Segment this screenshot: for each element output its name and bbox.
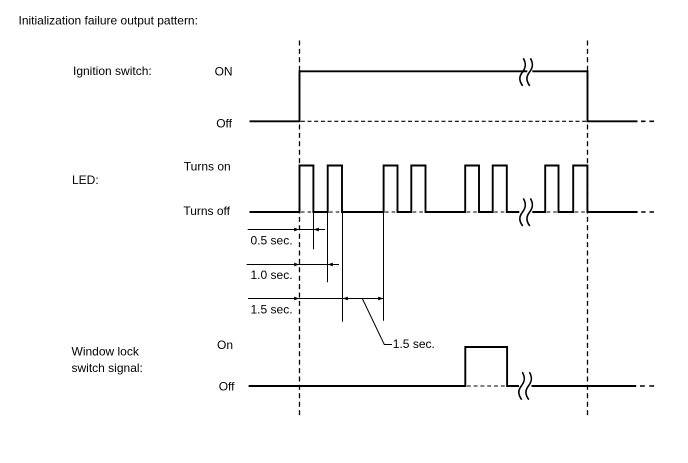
svg-text:1.5 sec.: 1.5 sec. — [251, 303, 293, 317]
row 3 left-pointing arrowhead at x=342 — [343, 297, 348, 301]
row 3 right-pointing arrowhead at x=299.5 — [294, 297, 299, 301]
svg-text:1.5 sec.: 1.5 sec. — [393, 337, 435, 351]
svg-text:Turns on: Turns on — [184, 160, 231, 174]
LED off-level trailing dashes — [641, 211, 654, 213]
svg-text:On: On — [217, 338, 233, 352]
break squiggle on LED baseline — [520, 198, 526, 226]
svg-text:ON: ON — [215, 64, 233, 78]
svg-text:1.0 sec.: 1.0 sec. — [251, 268, 293, 282]
LED dashed baseline under pulse 6 — [494, 211, 506, 213]
svg-text:Off: Off — [216, 117, 232, 131]
svg-text:Window lock: Window lock — [72, 345, 140, 359]
window dashed baseline under pulse — [467, 385, 506, 387]
ignition switch waveform (off-high-off) — [250, 71, 638, 121]
LED dashed baseline under pulse 8 — [575, 211, 587, 213]
extension line A from pulse1 falling edge (x=313.4) — [313, 212, 315, 249]
dimension row 1 line (0.5 sec) — [248, 229, 325, 231]
dashed vertical reference line right (x=587.5) — [587, 41, 589, 417]
dimension row 2 line (1.0 sec) — [247, 264, 339, 266]
row 1 right-pointing arrowhead at x=299.5 — [294, 228, 299, 232]
extension line B from pulse2 rising edge (x=327.7) — [327, 212, 329, 282]
ignition off-level dashed line under pulse — [301, 120, 587, 122]
LED waveform: 8 pulses with breaks — [250, 166, 638, 213]
row 2 left-pointing arrowhead at x=327.7 — [328, 263, 333, 267]
row 3 right-pointing arrowhead at x=383.7 — [378, 297, 383, 301]
extension line D from pulse3 rising edge (x=383.7) — [383, 212, 385, 321]
svg-text:switch signal:: switch signal: — [72, 361, 143, 375]
leader line to second 1.5 sec label — [362, 299, 392, 345]
svg-text:Ignition switch:: Ignition switch: — [73, 64, 152, 78]
row 2 right-pointing arrowhead at x=299.5 — [294, 263, 299, 267]
extension line C from pulse2 falling edge (x=342) — [342, 212, 344, 322]
break squiggle on ignition ON line — [520, 58, 526, 86]
LED dashed baseline under pulse 4 — [413, 211, 425, 213]
window lock switch signal waveform — [249, 347, 637, 386]
ignition off-level trailing dashes — [641, 120, 654, 122]
dashed vertical reference line left (x=299.5) — [299, 41, 301, 416]
LED dashed baseline under pulse 2 — [329, 211, 341, 213]
svg-text:Initialization failure output: Initialization failure output pattern: — [19, 14, 198, 28]
svg-text:0.5 sec.: 0.5 sec. — [251, 234, 293, 248]
svg-text:Off: Off — [219, 379, 235, 393]
break squiggle on window baseline — [519, 372, 525, 400]
row 1 left-pointing arrowhead at x=313.4 — [314, 228, 319, 232]
dimension row 3 line (1.5 sec spans) — [248, 298, 384, 300]
window off-level trailing dashes — [640, 385, 654, 387]
LED dashed baseline under pulse 3 — [385, 211, 397, 213]
LED dashed baseline under pulse 1 — [301, 211, 313, 213]
LED dashed baseline under pulse 5 — [467, 211, 478, 213]
svg-text:Turns off: Turns off — [183, 204, 230, 218]
LED dashed baseline under pulse 7 — [547, 211, 558, 213]
svg-text:LED:: LED: — [72, 173, 99, 187]
